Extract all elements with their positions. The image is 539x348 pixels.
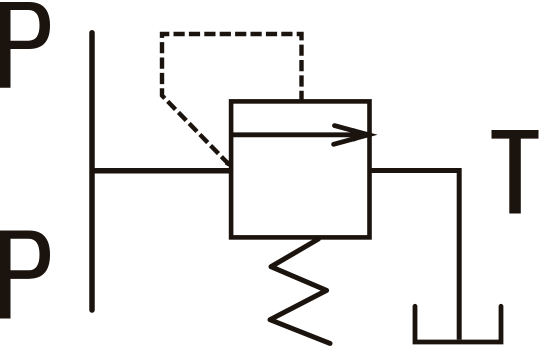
spring (valve return spring) (270, 239, 330, 343)
pilot line (dashed) (162, 34, 302, 166)
wire valve outlet to tank (370, 171, 460, 340)
valve flow-path arrow (233, 126, 370, 145)
tank symbol (415, 306, 501, 342)
pilot line arrowhead (225, 160, 234, 169)
node P (top port label) (0, 2, 50, 88)
wire P branch to valve (92, 168, 233, 174)
valve body V1 (envelope square) (231, 101, 369, 237)
node P (bottom port label) (0, 231, 50, 319)
node T (tank port label) (492, 130, 539, 214)
wire P supply vertical (89, 33, 95, 310)
